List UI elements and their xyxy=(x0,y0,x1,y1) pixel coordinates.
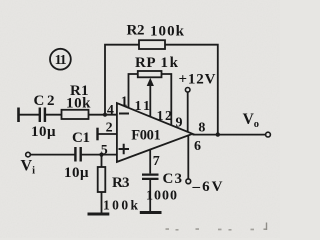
svg-text:4: 4 xyxy=(107,103,114,118)
svg-text:11: 11 xyxy=(135,99,151,114)
svg-text:F001: F001 xyxy=(131,128,161,144)
svg-text:1000: 1000 xyxy=(146,189,177,204)
svg-text:C3: C3 xyxy=(163,171,183,187)
svg-text:10μ: 10μ xyxy=(64,165,89,181)
svg-text:11: 11 xyxy=(55,53,67,68)
svg-text:C2: C2 xyxy=(34,93,55,109)
svg-text:12: 12 xyxy=(157,109,173,124)
svg-text:R3: R3 xyxy=(112,175,130,191)
svg-text:5: 5 xyxy=(101,143,108,158)
svg-text:9: 9 xyxy=(176,116,183,131)
svg-text:10k: 10k xyxy=(66,96,91,112)
svg-text:1: 1 xyxy=(121,95,128,110)
svg-text:RP: RP xyxy=(135,55,156,71)
svg-text:2: 2 xyxy=(106,121,113,136)
svg-text:10μ: 10μ xyxy=(31,124,56,140)
svg-text:100k: 100k xyxy=(103,198,138,213)
svg-text:+12V: +12V xyxy=(179,72,216,88)
svg-text:1k: 1k xyxy=(161,55,179,71)
svg-text:7: 7 xyxy=(153,154,160,169)
svg-text:8: 8 xyxy=(198,121,205,136)
svg-text:–6V: –6V xyxy=(192,179,223,195)
svg-text:C1: C1 xyxy=(72,130,90,146)
svg-text:100k: 100k xyxy=(150,24,185,40)
svg-text:6: 6 xyxy=(194,139,201,154)
svg-text:R2: R2 xyxy=(127,23,145,39)
